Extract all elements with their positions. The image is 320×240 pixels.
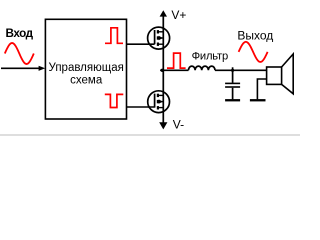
- gate wire bottom: [127, 106, 155, 108]
- svg-text:V-: V-: [173, 117, 184, 131]
- ground (speaker): [250, 99, 266, 101]
- separator line: [0, 134, 300, 136]
- speaker cone: [282, 54, 294, 94]
- capacitor C1 bottom lead: [232, 88, 234, 100]
- PWM pulse at node: [167, 53, 186, 68]
- capacitor C1 bottom plate: [225, 86, 240, 88]
- PWM pulse bottom inverted (in box): [105, 94, 124, 107]
- speaker terminal 2 wire: [257, 79, 266, 99]
- speaker LS1 body: [267, 67, 282, 84]
- gate wire top: [127, 43, 155, 45]
- wire inductor to speaker: [215, 69, 267, 71]
- V+ arrowhead: [160, 10, 167, 16]
- capacitor junction dot: [231, 69, 234, 72]
- output wire to filter: [160, 69, 188, 71]
- input wire: [1, 67, 40, 69]
- svg-text:схема: схема: [70, 74, 103, 86]
- output sine wave: [239, 42, 268, 62]
- transistor Q2 (bottom MOSFET): [148, 91, 170, 113]
- capacitor C1 top plate: [225, 82, 240, 84]
- svg-text:Фильтр: Фильтр: [192, 50, 228, 62]
- svg-text:Вход: Вход: [6, 27, 34, 40]
- V- arrowhead: [159, 122, 167, 129]
- svg-text:Выход: Выход: [237, 28, 273, 42]
- ground (capacitor): [225, 99, 240, 101]
- input sine wave: [5, 43, 34, 64]
- capacitor C1 top lead: [232, 67, 234, 83]
- svg-text:V+: V+: [171, 8, 186, 22]
- svg-text:Управляющая: Управляющая: [49, 62, 124, 74]
- transistor Q1 (top MOSFET): [148, 27, 170, 49]
- node junction dot: [161, 69, 164, 72]
- main vertical rail: [162, 16, 164, 123]
- inductor L1: [189, 66, 215, 70]
- control box U1: [45, 19, 126, 119]
- input arrowhead: [39, 66, 46, 71]
- PWM pulse top (in box): [105, 28, 123, 44]
